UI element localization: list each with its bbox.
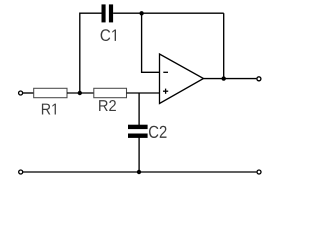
ground terminal left — [19, 170, 23, 174]
wire — [138, 93, 140, 125]
label C1 — [101, 29, 116, 41]
wire — [67, 92, 94, 94]
node junction dot (output) — [222, 76, 226, 80]
resistor R2 — [94, 88, 127, 97]
wire — [138, 138, 140, 173]
op-amp U1 — [160, 54, 204, 104]
node junction dot (C2 / rail) — [137, 170, 141, 174]
label C2 — [149, 126, 167, 138]
wire — [204, 78, 257, 80]
wire — [80, 13, 102, 93]
label R2 — [99, 100, 116, 111]
ground terminal right — [257, 170, 261, 174]
label R1 — [42, 104, 56, 115]
wire — [223, 13, 225, 78]
capacitor C1 — [102, 4, 114, 22]
input terminal — [19, 91, 23, 95]
wire (bottom rail) — [23, 171, 257, 173]
node A junction dot — [78, 91, 82, 95]
resistor R1 — [34, 88, 67, 97]
wire — [113, 12, 224, 14]
wire — [23, 92, 34, 94]
wire — [142, 13, 160, 72]
node junction dot (C1 / feedback) — [139, 11, 143, 15]
output terminal — [257, 77, 261, 81]
capacitor C2 — [128, 125, 148, 138]
wire — [127, 92, 160, 94]
